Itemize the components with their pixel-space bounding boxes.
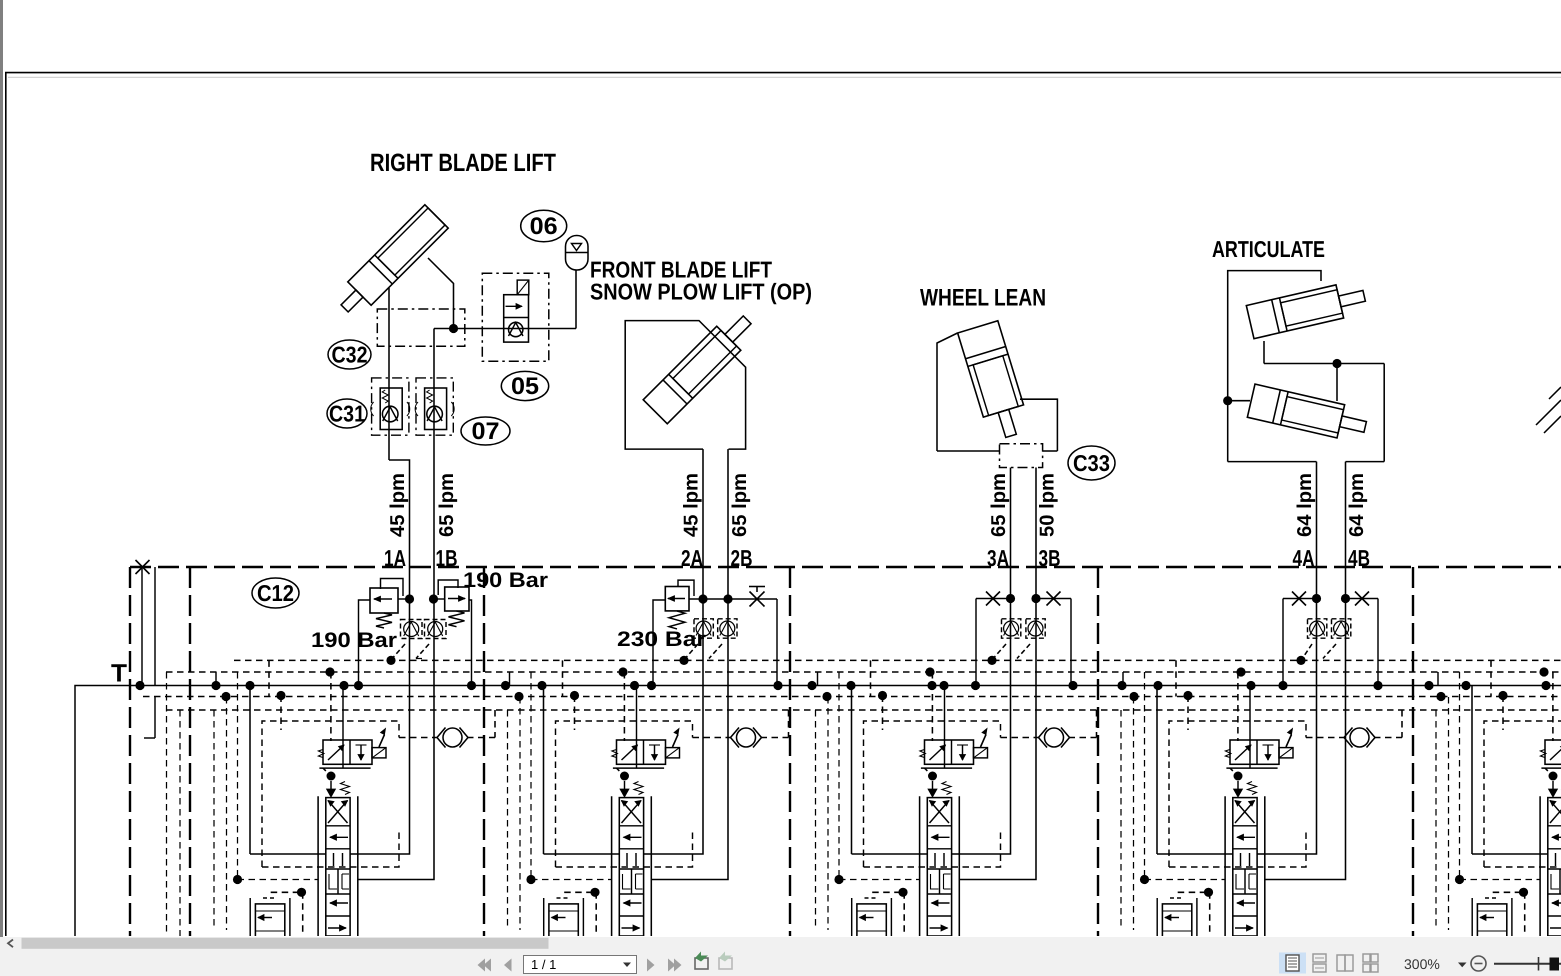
svg-text:C12: C12 [257,580,294,606]
svg-text:50 lpm: 50 lpm [1037,473,1059,537]
svg-text:SNOW PLOW LIFT (OP): SNOW PLOW LIFT (OP) [590,279,812,305]
svg-text:64 lpm: 64 lpm [1346,473,1368,537]
svg-text:1 / 1: 1 / 1 [531,957,556,972]
svg-text:65 lpm: 65 lpm [436,473,458,537]
svg-text:65 lpm: 65 lpm [729,473,751,537]
svg-text:2A: 2A [681,545,703,571]
svg-text:C32: C32 [332,341,368,367]
svg-text:2B: 2B [731,545,753,571]
svg-text:T: T [111,660,127,688]
svg-text:4A: 4A [1293,545,1315,571]
svg-text:06: 06 [530,213,558,240]
svg-text:07: 07 [472,418,500,445]
svg-text:190 Bar: 190 Bar [311,629,397,652]
svg-text:1B: 1B [436,545,458,571]
svg-text:230 Bar: 230 Bar [617,628,706,651]
svg-text:C33: C33 [1073,450,1110,476]
svg-text:190 Bar: 190 Bar [463,569,548,592]
svg-text:1A: 1A [384,545,406,571]
svg-text:45 lpm: 45 lpm [387,473,409,537]
svg-text:05: 05 [511,373,539,400]
svg-text:WHEEL LEAN: WHEEL LEAN [920,285,1046,312]
svg-text:65 lpm: 65 lpm [988,473,1010,537]
svg-text:64 lpm: 64 lpm [1294,473,1316,537]
svg-text:RIGHT BLADE LIFT: RIGHT BLADE LIFT [370,149,556,177]
svg-text:ARTICULATE: ARTICULATE [1212,236,1325,262]
svg-text:300%: 300% [1404,956,1440,972]
svg-text:C31: C31 [329,400,365,426]
svg-text:3A: 3A [987,545,1009,571]
svg-text:45 lpm: 45 lpm [681,473,703,537]
svg-text:3B: 3B [1039,545,1061,571]
svg-text:4B: 4B [1348,545,1370,571]
